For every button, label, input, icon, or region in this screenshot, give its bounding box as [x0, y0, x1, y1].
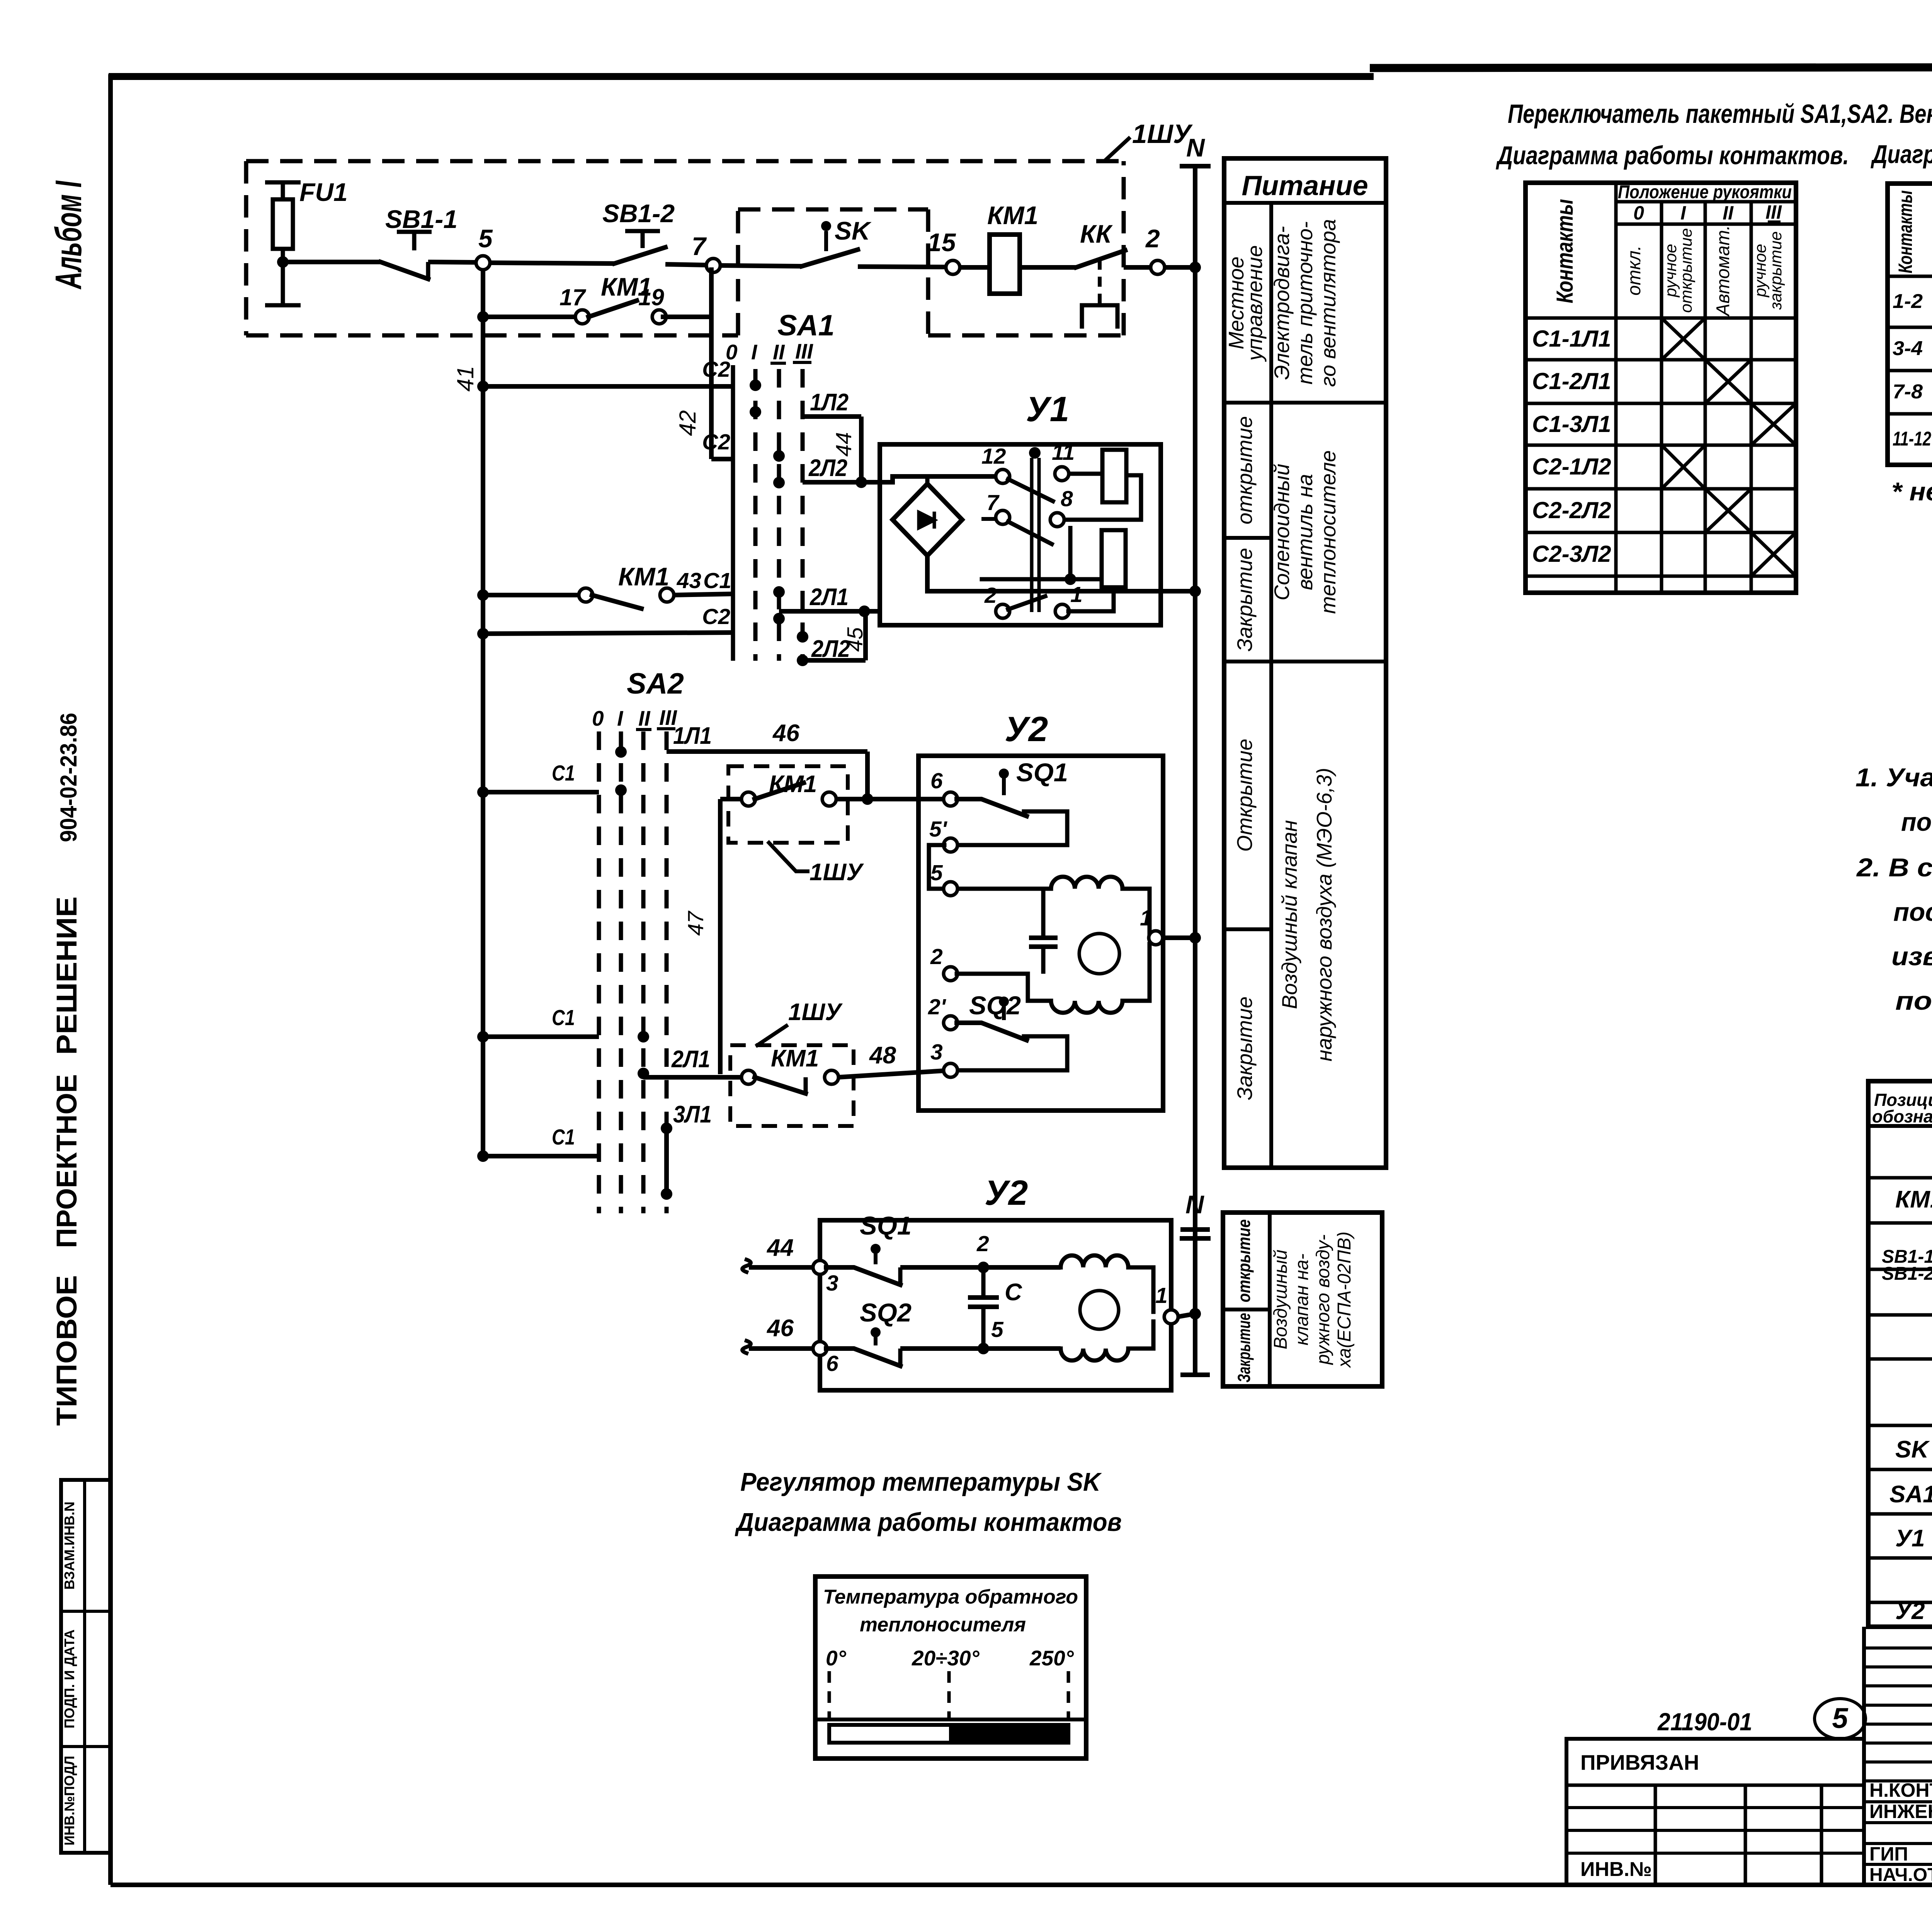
capacitor C (ЕСПА): [968, 1267, 1022, 1349]
title block: [1864, 1627, 1932, 1887]
svg-text:* не используется: * не используется: [1891, 477, 1932, 506]
svg-text:21190-01: 21190-01: [1657, 1708, 1752, 1736]
svg-text:1. Участок схемы, ограничен: 1. Участок схемы, ограниченный пунктиром…: [1855, 763, 1932, 792]
svg-text:42: 42: [675, 410, 701, 436]
svg-text:FU1: FU1: [299, 178, 348, 206]
terminal 2п (У2): [928, 995, 957, 1030]
svg-text:3Л1: 3Л1: [673, 1101, 712, 1128]
svg-text:Положение рукоятки: Положение рукоятки: [1618, 182, 1792, 202]
svg-text:поставлятся с исполнительным: поставлятся с исполнительным механизмом …: [1893, 898, 1932, 927]
svg-text:SA1.2: SA1.2: [1889, 1481, 1932, 1508]
neutral line N (upper): [1180, 133, 1211, 1238]
svg-text:1-2: 1-2: [1893, 290, 1923, 313]
wire: winding2 to node 1: [1122, 944, 1150, 1001]
contact 12 (У1): [981, 444, 1010, 483]
wire: SK to node 15: [858, 267, 947, 267]
wire 2Л2: [803, 455, 880, 488]
svg-text:0: 0: [592, 706, 604, 730]
svg-text:17: 17: [560, 284, 586, 310]
svg-text:II: II: [1723, 202, 1734, 224]
svg-text:КМ1: КМ1: [987, 201, 1038, 230]
neutral line N (lower): [1180, 1190, 1210, 1375]
svg-text:6: 6: [930, 769, 943, 793]
contact slant 2-1: [1008, 596, 1045, 609]
motor winding 1 (У2): [1051, 877, 1122, 889]
svg-text:0: 0: [1633, 202, 1644, 224]
svg-text:0: 0: [726, 340, 738, 364]
svg-text:КМ1: КМ1: [771, 1045, 819, 1072]
pushbutton SB1-2 (NO): [602, 199, 675, 264]
svg-text:1Л1: 1Л1: [673, 723, 712, 749]
node 15: [927, 228, 960, 274]
svg-text:открытие: открытие: [1233, 416, 1257, 524]
wire: FU1 to SB1-1: [283, 260, 381, 264]
svg-text:44: 44: [766, 1235, 794, 1261]
svg-text:1ШУ: 1ШУ: [1132, 119, 1193, 149]
svg-text:С1: С1: [703, 568, 731, 593]
svg-text:904-02-23.86: 904-02-23.86: [56, 713, 82, 842]
svg-text:2Л1: 2Л1: [671, 1046, 710, 1073]
svg-text:1ШУ: 1ШУ: [810, 859, 864, 886]
svg-text:Н.КОНТ.: Н.КОНТ.: [1869, 1779, 1932, 1801]
wire: KM1(46) to У2 terminal 6: [835, 793, 951, 805]
wire 41 (vertical from node 5): [452, 269, 483, 1156]
wire: to N (lower): [1177, 1308, 1201, 1320]
svg-text:Закрытие: Закрытие: [1233, 548, 1257, 651]
contact 1 (У1): [1055, 582, 1083, 618]
svg-text:5: 5: [1832, 1702, 1849, 1734]
contact 7 (У1): [981, 490, 1010, 524]
auxiliary contact KM1 17-19: [477, 272, 711, 324]
wire: node 15 to KM1 coil: [959, 265, 990, 270]
terminal 1 (ЕСПА): [1155, 1283, 1178, 1324]
svg-text:Диаграмма работы контактов.: Диаграмма работы контактов.: [1496, 141, 1849, 170]
svg-text:II: II: [638, 706, 651, 730]
svg-text:15: 15: [927, 228, 956, 257]
contact KM1 43-C1: [477, 562, 733, 609]
svg-text:SK: SK: [835, 216, 872, 245]
node 2 (ЕСПА): [976, 1231, 989, 1273]
svg-text:ИНВ.№ПОДЛ: ИНВ.№ПОДЛ: [61, 1756, 77, 1845]
wire 44 lead: [742, 1235, 814, 1272]
svg-text:41: 41: [452, 366, 478, 392]
svg-text:II: II: [773, 340, 785, 364]
junction on N: [1189, 262, 1201, 273]
pushbutton SB1-1 (NC): [381, 205, 457, 279]
svg-text:2Л2: 2Л2: [808, 455, 847, 481]
svg-text:N: N: [1185, 1190, 1204, 1219]
svg-text:I: I: [617, 706, 624, 730]
wire 2Л1: [779, 584, 880, 617]
svg-text:1: 1: [1140, 906, 1152, 930]
svg-text:Температура обратного: Температура обратного: [823, 1586, 1078, 1608]
svg-text:подключения: подключения: [1895, 986, 1932, 1015]
svg-text:N: N: [1186, 133, 1205, 162]
svg-text:С1: С1: [552, 1005, 575, 1030]
terminal 3 (У2): [930, 1040, 957, 1077]
svg-text:11: 11: [1052, 440, 1075, 465]
svg-text:1: 1: [1155, 1283, 1168, 1308]
title: Переключатель пакетный: [1496, 99, 1932, 170]
wire 46 lead: [742, 1315, 814, 1353]
svg-text:45: 45: [843, 627, 867, 652]
svg-text:1Л2: 1Л2: [810, 389, 849, 416]
wire: 2 to winding 2: [957, 974, 1051, 1001]
svg-text:2Л1: 2Л1: [810, 584, 849, 611]
wire: 11 to coil: [1068, 472, 1102, 476]
wire: 5 to winding: [957, 887, 1051, 891]
svg-text:5: 5: [930, 861, 943, 885]
svg-text:SQ1: SQ1: [1016, 758, 1068, 787]
svg-text:КМ1: КМ1: [618, 562, 669, 591]
sheet number circle 5: [1815, 1699, 1866, 1739]
svg-text:У2: У2: [985, 1173, 1028, 1213]
label 1ШУ leader (lower box): [757, 999, 843, 1045]
air damper actuator У2 (ЕСПА): [820, 1173, 1171, 1390]
wire 47: [684, 799, 742, 1074]
svg-text:Контакты: Контакты: [1895, 190, 1916, 274]
svg-text:12: 12: [981, 444, 1006, 469]
relay coil 2 (У1): [1102, 530, 1126, 587]
svg-text:ГИП: ГИП: [1869, 1843, 1908, 1865]
svg-text:НАЧ.ОТД: НАЧ.ОТД: [1869, 1865, 1932, 1885]
wire 48: to У2 terminal 3: [838, 1042, 951, 1077]
svg-text:Автомат.: Автомат.: [1713, 225, 1733, 317]
svg-text:клапан на-: клапан на-: [1292, 1253, 1312, 1345]
label 1ШУ with leader: [1104, 119, 1193, 161]
svg-text:вентиль на: вентиль на: [1293, 474, 1317, 590]
contact slant 12-11: [1008, 479, 1053, 501]
terminal 6 (У2 ЕСПА): [813, 1342, 838, 1376]
svg-text:Электродвига-: Электродвига-: [1270, 226, 1294, 380]
wire: SB1-2 to node 7: [665, 264, 707, 265]
svg-text:КМ1: КМ1: [769, 771, 817, 798]
svg-text:по проекту электрооборудован: по проекту электрооборудования.: [1901, 808, 1932, 837]
wire C1 branch 3: [477, 1125, 599, 1162]
svg-text:тель приточно-: тель приточно-: [1293, 221, 1317, 384]
packet switch SA2: [592, 667, 684, 1213]
svg-text:ТИПОВОЕ: ТИПОВОЕ: [51, 1275, 83, 1426]
svg-text:5: 5: [991, 1317, 1004, 1342]
svg-text:Открытие: Открытие: [1233, 739, 1257, 852]
limit switch SQ2 (У2): [957, 991, 1067, 1070]
svg-text:С1: С1: [552, 1125, 575, 1150]
wire: coil1 loop to contact 8: [1063, 475, 1141, 520]
wire: windings to node 1 (ЕСПА): [1128, 1267, 1153, 1349]
packet switch SA1: [726, 309, 835, 666]
contact diagram table SA1/SA2: [1526, 182, 1796, 593]
wire: node1 to N: [1162, 932, 1201, 944]
svg-text:ВЗАМ.ИНВ.N: ВЗАМ.ИНВ.N: [61, 1502, 77, 1590]
wire C1 branch 1: [477, 761, 599, 798]
wire: node 7 to SK: [719, 265, 802, 266]
svg-text:изводства НРБ, на чертеже: изводства НРБ, на чертеже показана схема…: [1891, 942, 1932, 971]
svg-text:открытие: открытие: [1677, 228, 1696, 313]
svg-text:Диаграмма работы контактов: Диаграмма работы контактов: [1871, 140, 1932, 169]
relay coil 1 (У1): [1102, 450, 1126, 502]
svg-text:SB1-2: SB1-2: [1882, 1264, 1932, 1284]
svg-text:Регулятор температуры SK: Регулятор температуры SK: [740, 1468, 1102, 1497]
terminal 1 (У2): [1140, 906, 1163, 945]
svg-text:III: III: [795, 339, 814, 363]
svg-text:6: 6: [826, 1351, 838, 1376]
svg-text:47: 47: [684, 910, 708, 936]
svg-text:ружного возду-: ружного возду-: [1313, 1235, 1333, 1366]
svg-text:ИНВ.№: ИНВ.№: [1580, 1858, 1652, 1881]
svg-text:46: 46: [766, 1315, 794, 1342]
wire: 2Л2 into У1: [866, 476, 997, 482]
wire: node 2 to N: [1164, 265, 1195, 270]
contact diagram table У1: [1888, 184, 1932, 465]
svg-text:Воздушный: Воздушный: [1270, 1250, 1291, 1349]
svg-text:РЕШЕНИЕ: РЕШЕНИЕ: [51, 896, 83, 1055]
bypass contact KM1 (46) in dashed box: [728, 766, 848, 843]
notes Примечания: [1855, 704, 1932, 1015]
svg-text:Альбом I: Альбом I: [48, 180, 89, 289]
wire 2Л2/45 (lower): [803, 611, 867, 662]
svg-text:2': 2': [928, 995, 947, 1019]
svg-text:19: 19: [638, 284, 664, 310]
svg-text:КМ1: КМ1: [1895, 1186, 1932, 1213]
svg-text:3-4: 3-4: [1893, 337, 1923, 360]
svg-text:У1: У1: [1026, 390, 1069, 429]
svg-text:С1-1Л1: С1-1Л1: [1532, 326, 1611, 352]
interlock contact KM1 (48) in dashed box: [730, 1045, 854, 1126]
contact slant 7-8: [1008, 522, 1052, 544]
svg-text:У1: У1: [1895, 1525, 1925, 1552]
wire: node 5 to SB1-2: [489, 263, 614, 264]
margin stamp table: [61, 1480, 111, 1853]
svg-text:7: 7: [692, 232, 707, 260]
SK temperature table: [815, 1577, 1086, 1759]
svg-text:Закрытие: Закрытие: [1234, 1313, 1254, 1383]
svg-text:5': 5': [929, 817, 948, 842]
svg-text:7: 7: [986, 490, 1000, 515]
air damper actuator У2 (МЭО-6,3): [918, 710, 1163, 1111]
wire 42 (to SA1 C2): [477, 357, 733, 459]
svg-text:I: I: [1680, 202, 1686, 224]
svg-text:43: 43: [677, 568, 702, 593]
svg-text:ПРОЕКТНОЕ: ПРОЕКТНОЕ: [51, 1074, 83, 1248]
fuse FU1: [265, 178, 348, 305]
svg-text:теплоносителе: теплоносителе: [1316, 450, 1340, 614]
terminal 6 (У2): [930, 769, 957, 806]
contact 2 (У1): [984, 583, 1010, 618]
solenoid valve unit У1: [880, 390, 1161, 625]
svg-text:С2: С2: [702, 604, 730, 629]
wire: mid loop: [982, 526, 1102, 585]
capacitor (У2): [1029, 889, 1058, 974]
wire: bridge bottom to N: [927, 556, 1201, 597]
svg-text:III: III: [1765, 201, 1782, 223]
svg-text:Закрытие: Закрытие: [1233, 997, 1257, 1100]
svg-text:теплоносителя: теплоносителя: [860, 1614, 1026, 1636]
wire: KM1 coil to KK: [1020, 265, 1076, 270]
attachment table: [1566, 1739, 1864, 1885]
contact 11 (У1): [1052, 440, 1075, 481]
svg-text:SA2: SA2: [627, 667, 684, 700]
contactor coil KM1: [987, 201, 1038, 294]
svg-text:2. В связи с тем, что ре: 2. В связи с тем, что регулирующий клапа…: [1856, 853, 1932, 882]
svg-text:управление: управление: [1243, 245, 1267, 362]
svg-text:Диаграмма работы контактов: Диаграмма работы контактов: [735, 1508, 1122, 1537]
svg-text:ИНЖЕН: ИНЖЕН: [1869, 1801, 1932, 1822]
svg-text:5: 5: [478, 224, 493, 253]
svg-text:SB1-1: SB1-1: [385, 205, 457, 233]
mechanical link (У1): [1029, 447, 1041, 612]
svg-text:ПОДП. И ДАТА: ПОДП. И ДАТА: [61, 1629, 77, 1728]
svg-text:Соленоидный: Соленоидный: [1270, 464, 1294, 600]
svg-text:SQ2: SQ2: [860, 1298, 912, 1327]
svg-text:3: 3: [930, 1040, 943, 1065]
svg-text:SQ2: SQ2: [969, 991, 1021, 1020]
svg-text:1ШУ: 1ШУ: [788, 999, 843, 1026]
svg-text:Контакты: Контакты: [1552, 199, 1578, 303]
svg-text:откл.: откл.: [1624, 245, 1645, 296]
svg-text:КК: КК: [1080, 219, 1113, 248]
mini function table (ЕСПА): [1223, 1213, 1382, 1386]
svg-text:С: С: [1005, 1279, 1022, 1306]
terminal 3 (У2 ЕСПА): [813, 1260, 838, 1296]
wire: contact1 to coil2: [1068, 587, 1114, 611]
wire: SQ2 to winding2: [900, 1346, 1061, 1351]
svg-text:2: 2: [984, 583, 997, 608]
SK diagram title: [735, 1468, 1122, 1537]
svg-text:С1: С1: [552, 761, 575, 786]
motor M (ЕСПА): [1080, 1291, 1119, 1329]
terminal 5п (У2): [929, 817, 957, 852]
svg-text:С2-1Л2: С2-1Л2: [1532, 454, 1611, 480]
wire: 5п to 5: [929, 845, 944, 889]
svg-text:Питание: Питание: [1242, 170, 1368, 201]
svg-text:250°: 250°: [1029, 1646, 1074, 1670]
node 7: [692, 232, 720, 272]
motor winding 2 (ЕСПА): [1061, 1349, 1128, 1361]
wire: SB1-1 to node 5: [428, 262, 477, 262]
svg-text:2: 2: [976, 1231, 989, 1256]
wire 1Л2/44: [803, 389, 861, 482]
thermal relay contact KK: [1076, 219, 1125, 327]
junction on FU1: [277, 256, 289, 268]
svg-text:У2: У2: [1005, 710, 1048, 749]
node 2: [1145, 224, 1165, 274]
wire C1 branch 2: [477, 1005, 599, 1043]
wire: SQ1 to winding: [900, 1265, 1061, 1270]
svg-text:SB1-2: SB1-2: [602, 199, 675, 228]
svg-text:У2: У2: [1895, 1598, 1925, 1624]
cabinet boundary 1ШУ (dashed): [246, 161, 1124, 335]
svg-text:SQ1: SQ1: [860, 1211, 912, 1240]
svg-text:0°: 0°: [826, 1646, 847, 1670]
svg-text:I: I: [751, 340, 758, 364]
svg-text:Переключатель пакетный SA1,SA: Переключатель пакетный SA1,SA2. Вентиль …: [1508, 99, 1932, 129]
svg-text:2: 2: [930, 944, 943, 969]
terminal 2 (У2): [930, 944, 957, 981]
svg-text:7-8: 7-8: [1893, 381, 1923, 403]
circuit function table (Питание): [1224, 158, 1386, 1168]
contact 8 (У1): [1050, 486, 1073, 527]
motor winding 1 (ЕСПА): [1061, 1255, 1128, 1267]
wire: KK to node 2: [1124, 265, 1151, 270]
motor M (У2): [1079, 934, 1119, 974]
limit switch SQ1 (ЕСПА): [826, 1211, 912, 1285]
svg-text:8: 8: [1061, 486, 1073, 511]
label 3Л1: [673, 1101, 712, 1128]
wire: node 7 down: [709, 267, 714, 459]
svg-text:48: 48: [869, 1042, 896, 1069]
wire: bridge top stub: [925, 476, 930, 484]
motor winding 2 (У2): [1051, 1001, 1122, 1013]
wire: winding1 to node 1: [1122, 889, 1150, 933]
svg-text:открытие: открытие: [1234, 1219, 1254, 1303]
parts list table: [1868, 1081, 1932, 1644]
svg-text:44: 44: [832, 432, 856, 456]
wire 1Л1/46: [667, 720, 867, 800]
rectifier bridge (У1): [893, 484, 962, 556]
svg-text:С2-2Л2: С2-2Л2: [1532, 497, 1611, 523]
svg-text:SK: SK: [1895, 1436, 1930, 1463]
limit switch SQ1 (У2): [957, 758, 1068, 845]
svg-text:SA1: SA1: [777, 309, 835, 342]
node 5: [476, 224, 493, 270]
terminal 5 (У2): [930, 861, 957, 896]
temperature controller contact SK: [802, 216, 872, 266]
svg-text:2: 2: [1145, 224, 1160, 253]
wire C2 (lower): [477, 604, 734, 639]
svg-text:46: 46: [772, 720, 799, 747]
svg-text:С2: С2: [702, 430, 730, 454]
svg-text:наружного воздуха (МЭО-6,3): наружного воздуха (МЭО-6,3): [1312, 768, 1336, 1061]
limit switch SQ2 (ЕСПА): [826, 1298, 912, 1366]
svg-text:обозначен: обозначен: [1872, 1107, 1932, 1126]
svg-text:го вентилятора: го вентилятора: [1316, 219, 1340, 387]
svg-text:20÷30°: 20÷30°: [912, 1646, 980, 1670]
svg-text:С2-3Л2: С2-3Л2: [1532, 541, 1611, 567]
svg-text:3: 3: [826, 1271, 838, 1296]
wire 2Л1 (to lower KM1 box): [643, 1046, 742, 1077]
svg-text:закрытие: закрытие: [1767, 231, 1785, 310]
svg-text:С1-2Л1: С1-2Л1: [1532, 368, 1611, 394]
node 5 (ЕСПА): [978, 1317, 1004, 1354]
svg-text:ха(ЕСПА-02ПВ): ха(ЕСПА-02ПВ): [1334, 1231, 1355, 1368]
svg-text:1: 1: [1070, 582, 1083, 607]
svg-text:11-12: 11-12: [1893, 428, 1931, 450]
svg-text:Воздушный клапан: Воздушный клапан: [1277, 820, 1301, 1009]
label 1ШУ leader (upper box): [769, 843, 864, 886]
svg-text:С1-3Л1: С1-3Л1: [1532, 411, 1611, 437]
svg-text:ПРИВЯЗАН: ПРИВЯЗАН: [1580, 1750, 1699, 1774]
